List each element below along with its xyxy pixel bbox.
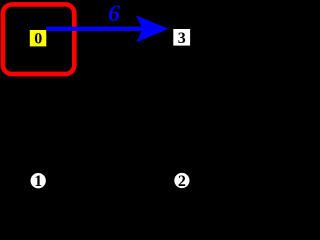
svg-text:2: 2 (178, 173, 186, 190)
svg-text:3: 3 (178, 30, 186, 47)
svg-text:1: 1 (34, 173, 42, 190)
svg-text:0: 0 (34, 30, 42, 47)
svg-text:6: 6 (108, 1, 120, 27)
